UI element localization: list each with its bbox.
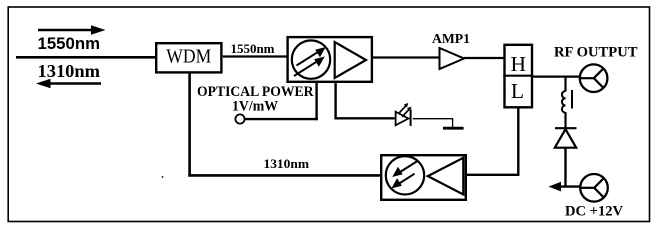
wire receiver to optical power tap xyxy=(245,82,318,121)
wire LED to ground xyxy=(413,119,453,128)
ground xyxy=(443,127,464,130)
svg-text:DC +12V: DC +12V xyxy=(565,202,623,219)
laser diode symbol (circle with arrows) xyxy=(386,156,424,194)
wire WDM down to 1310nm path xyxy=(188,73,191,177)
inductor L1 xyxy=(562,90,572,128)
wire 1310nm horizontal xyxy=(188,174,381,177)
wire: input fiber xyxy=(16,56,156,59)
svg-text:WDM: WDM xyxy=(166,46,211,68)
driver triangle inside transmitter xyxy=(428,158,464,195)
wire receiver to AMP1 xyxy=(372,56,440,58)
wire receiver to LED xyxy=(334,82,394,119)
node speck (scan dot) xyxy=(162,176,164,178)
svg-text:H: H xyxy=(511,52,527,76)
svg-text:1550nm: 1550nm xyxy=(38,34,101,53)
receiver module box U1 xyxy=(288,37,372,82)
wire filter to RF output xyxy=(533,75,581,77)
svg-text:1310nm: 1310nm xyxy=(264,156,310,171)
svg-text:1550nm: 1550nm xyxy=(231,42,276,56)
wire diode to DC node xyxy=(564,148,566,188)
wire transmitter to filter L port xyxy=(466,107,520,176)
wire DC feed with arrow xyxy=(549,182,582,192)
diode D1 xyxy=(555,128,577,148)
arrow: 1310nm output direction xyxy=(36,79,101,89)
diplex filter box H/L xyxy=(503,45,533,108)
photodiode symbol (circle with arrows) xyxy=(292,40,330,78)
svg-text:1V/mW: 1V/mW xyxy=(232,98,278,114)
WDM box xyxy=(156,43,221,72)
wire WDM to receiver xyxy=(223,55,288,57)
svg-text:RF OUTPUT: RF OUTPUT xyxy=(554,44,638,60)
arrow: 1550nm input direction xyxy=(38,25,106,35)
svg-text:L: L xyxy=(511,79,524,103)
terminal optical power xyxy=(235,114,244,123)
svg-text:1310nm: 1310nm xyxy=(38,61,101,81)
transmitter module box xyxy=(381,155,466,200)
wire to inductor xyxy=(564,77,566,92)
connector RF output xyxy=(580,64,608,92)
LED indicator xyxy=(396,103,412,126)
amplifier AMP1 xyxy=(440,48,465,69)
svg-text:AMP1: AMP1 xyxy=(432,31,470,46)
amplifier triangle inside receiver xyxy=(335,42,366,78)
connector DC +12V xyxy=(580,174,608,202)
wire AMP1 to H/L filter xyxy=(464,57,504,59)
